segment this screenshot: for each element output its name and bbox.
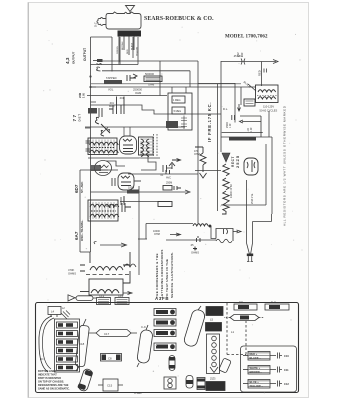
svg-text:SERVICE ILLUSTRATIONS.: SERVICE ILLUSTRATIONS.	[170, 252, 174, 298]
svg-text:500000: 500000	[145, 72, 154, 76]
svg-text:BLACK −: BLACK −	[250, 356, 262, 360]
svg-text:MODEL 1700,7062: MODEL 1700,7062	[225, 34, 268, 39]
svg-text:50-60 CYCLES: 50-60 CYCLES	[260, 109, 278, 113]
svg-text:OHM: OHM	[154, 233, 160, 236]
svg-text:L4: L4	[51, 310, 55, 314]
svg-text:LETTERING CORRESPONDS: LETTERING CORRESPONDS	[160, 249, 164, 298]
svg-text:WHITE +: WHITE +	[250, 366, 261, 370]
svg-text:KN: KN	[40, 358, 44, 361]
svg-text:C3: C3	[239, 300, 243, 304]
svg-text:S: S	[209, 224, 211, 228]
svg-text:OHM: OHM	[135, 91, 142, 95]
svg-text:AVC: AVC	[166, 177, 171, 180]
svg-text:YELLOW −: YELLOW −	[250, 384, 264, 388]
svg-text:DET: DET	[78, 113, 82, 121]
svg-text:14400 OHM: 14400 OHM	[230, 185, 233, 198]
svg-text:4,3: 4,3	[65, 57, 70, 64]
svg-text:A3FB: A3FB	[155, 296, 169, 301]
svg-text:OUTPUT: OUTPUT	[72, 52, 76, 65]
svg-text:GREEN: GREEN	[117, 46, 119, 54]
svg-text:C17: C17	[104, 332, 110, 336]
svg-text:ST.-AVC: ST.-AVC	[80, 181, 84, 193]
svg-text:1 W.: 1 W.	[82, 93, 86, 98]
svg-text:250M: 250M	[166, 182, 172, 185]
svg-text:THE CONDENSERS & THE: THE CONDENSERS & THE	[155, 253, 159, 298]
svg-text:6.3MF: 6.3MF	[134, 391, 142, 395]
svg-text:D.L.: D.L.	[223, 107, 228, 111]
svg-text:1 W.: 1 W.	[229, 123, 232, 128]
svg-text:C10: C10	[284, 354, 289, 358]
svg-text:1 W.: 1 W.	[250, 127, 253, 132]
svg-text:25Z5: 25Z5	[210, 378, 216, 381]
svg-text:L5: L5	[210, 318, 214, 322]
svg-text:1 MEG: 1 MEG	[173, 99, 181, 102]
svg-text:C8: C8	[108, 357, 112, 361]
svg-text:C13: C13	[99, 294, 105, 298]
svg-text:OHMS: OHMS	[68, 272, 76, 276]
svg-text:OHM: OHM	[148, 83, 155, 87]
svg-text:C-9: C-9	[141, 325, 146, 329]
svg-text:100M: 100M	[128, 187, 134, 190]
svg-text:VOL: VOL	[108, 88, 114, 92]
svg-text:25Z5: 25Z5	[235, 155, 240, 168]
svg-text:L1: L1	[231, 330, 235, 334]
svg-text:25M 1 W.: 25M 1 W.	[251, 193, 254, 204]
svg-text:6A7: 6A7	[74, 231, 79, 240]
svg-text:OHM: OHM	[194, 153, 200, 156]
svg-text:25M: 25M	[78, 93, 82, 98]
svg-text:MFD: MFD	[109, 105, 115, 108]
svg-text:D.C.: D.C.	[94, 21, 98, 27]
svg-text:C11: C11	[284, 368, 289, 372]
svg-text:BROWN: BROWN	[122, 41, 124, 50]
svg-text:C18: C18	[79, 342, 85, 346]
svg-text:.001: .001	[119, 97, 124, 100]
svg-text:470K: 470K	[68, 268, 74, 272]
svg-text:BROWN −: BROWN −	[250, 370, 263, 374]
svg-text:TAPPED: TAPPED	[106, 76, 117, 80]
svg-text:C16: C16	[118, 294, 124, 298]
svg-text:10: 10	[194, 247, 197, 251]
svg-text:.5 MEG: .5 MEG	[173, 110, 181, 113]
svg-text:6D7: 6D7	[74, 184, 79, 193]
svg-text:OSC.-TRANSL.: OSC.-TRANSL.	[80, 220, 84, 241]
svg-text:250000: 250000	[133, 88, 142, 92]
svg-text:.25 MFD: .25 MFD	[233, 54, 243, 58]
svg-text:C15: C15	[107, 384, 113, 388]
svg-text:C-4: C-4	[271, 300, 276, 304]
svg-text:C12: C12	[284, 382, 289, 386]
svg-text:RED: RED	[127, 49, 129, 54]
svg-text:SAME AS ON SCHEMATIC.: SAME AS ON SCHEMATIC.	[38, 388, 70, 391]
svg-text:.05: .05	[190, 244, 194, 247]
svg-text:RED +: RED +	[250, 352, 258, 356]
svg-text:ALL RESISTORS ARE 1/2 WATT: ALL RESISTORS ARE 1/2 WATT UNLESS OTHERW…	[283, 105, 287, 226]
svg-text:110-125V: 110-125V	[263, 105, 274, 109]
svg-text:BLUE +: BLUE +	[250, 380, 260, 384]
svg-text:77: 77	[72, 113, 77, 121]
svg-text:IF FRE.175 KC.: IF FRE.175 KC.	[207, 102, 212, 142]
svg-text:SEARS-ROEBUCK & CO.: SEARS-ROEBUCK & CO.	[144, 16, 214, 22]
svg-text:TO THAT USED IN THE: TO THAT USED IN THE	[165, 259, 169, 298]
svg-text:OHMS: OHMS	[191, 251, 199, 255]
svg-text:OUTPUT: OUTPUT	[83, 48, 87, 61]
